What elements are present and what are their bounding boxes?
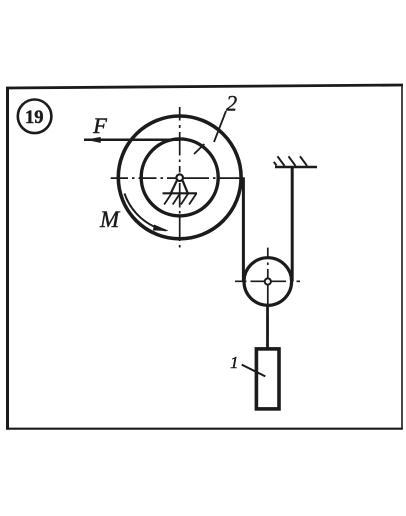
svg-text:1: 1 bbox=[230, 353, 239, 372]
svg-text:F: F bbox=[92, 113, 107, 138]
svg-text:2: 2 bbox=[226, 91, 237, 116]
svg-text:M: M bbox=[99, 207, 121, 232]
svg-text:19: 19 bbox=[25, 108, 44, 128]
